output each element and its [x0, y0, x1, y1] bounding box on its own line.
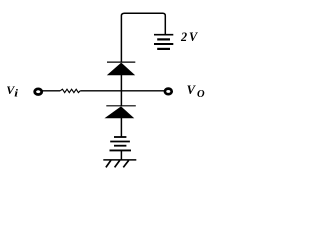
battery B2: plate 2 (long)	[110, 141, 130, 143]
wire: D1 anode down through output node to D2 bar	[120, 75, 122, 106]
battery B1: plate 3 (long)	[154, 43, 173, 45]
node vI label	[6, 83, 18, 100]
battery B2: plate 4 (long)	[110, 149, 132, 151]
diode D1 triangle	[108, 63, 135, 75]
wire: top loop from diode column up, right, down to battery	[121, 13, 165, 62]
svg-text:2V: 2V	[180, 30, 199, 44]
node vO label	[187, 83, 205, 100]
diode D1 cathode bar	[107, 61, 135, 63]
battery B1: plate 4 (short)	[157, 48, 170, 50]
diode D2 cathode bar	[106, 105, 136, 107]
ground hatch 2	[115, 160, 120, 167]
ground hatch 3	[123, 160, 128, 167]
wire: D2 anode down to battery B2	[120, 118, 122, 137]
battery B2: plate 3 (short)	[114, 145, 126, 147]
battery B1: plate 2 (short)	[157, 38, 170, 40]
battery B1 2V: plate 1 (long)	[154, 34, 173, 36]
output terminal (open circle)	[165, 89, 172, 95]
battery B2: plate 1 (short)	[114, 136, 126, 138]
svg-text:O: O	[197, 89, 205, 100]
svg-text:i: i	[14, 89, 18, 100]
ground hatch 1	[106, 160, 111, 167]
input terminal (open circle)	[35, 89, 42, 95]
ground bar	[103, 159, 136, 161]
wire from input terminal to resistor	[42, 90, 60, 92]
resistor R (zigzag)	[60, 89, 80, 92]
wire from resistor to output terminal	[80, 90, 164, 92]
diode D2 triangle	[105, 107, 133, 118]
wire: battery B2 to ground	[120, 150, 122, 160]
